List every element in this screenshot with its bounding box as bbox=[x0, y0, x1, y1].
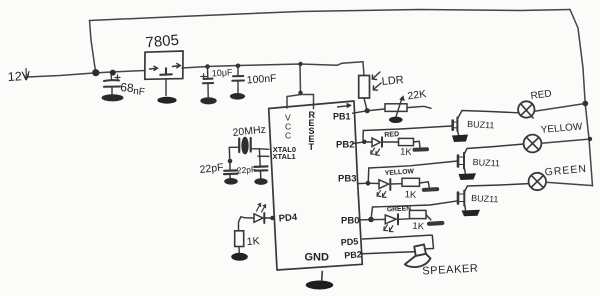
svg-text:RED: RED bbox=[384, 131, 399, 139]
svg-text:PB3: PB3 bbox=[338, 174, 356, 185]
svg-text:PB1: PB1 bbox=[333, 112, 351, 122]
svg-text:PD4: PD4 bbox=[278, 212, 298, 225]
svg-text:nF: nF bbox=[133, 86, 146, 98]
svg-text:1K: 1K bbox=[400, 147, 413, 159]
svg-text:C: C bbox=[285, 131, 291, 141]
svg-text:GREEN: GREEN bbox=[387, 205, 412, 213]
svg-text:GND: GND bbox=[305, 252, 330, 264]
svg-text:10μF: 10μF bbox=[211, 67, 233, 78]
svg-text:BUZ11: BUZ11 bbox=[471, 193, 499, 204]
svg-text:BUZ11: BUZ11 bbox=[472, 157, 500, 168]
svg-text:LDR: LDR bbox=[381, 74, 404, 88]
svg-text:XTAL1: XTAL1 bbox=[273, 152, 296, 161]
svg-text:1K: 1K bbox=[412, 221, 425, 233]
svg-text:PD5: PD5 bbox=[340, 236, 358, 247]
svg-text:7805: 7805 bbox=[145, 32, 180, 52]
svg-text:T: T bbox=[309, 142, 315, 152]
svg-text:100nF: 100nF bbox=[246, 72, 277, 86]
svg-text:22pF: 22pF bbox=[199, 162, 224, 176]
svg-text:PB2: PB2 bbox=[336, 140, 354, 151]
svg-text:1K: 1K bbox=[404, 189, 417, 201]
svg-text:22pF: 22pF bbox=[236, 164, 256, 175]
svg-text:PB0: PB0 bbox=[341, 216, 359, 227]
svg-text:PB2: PB2 bbox=[344, 249, 362, 260]
svg-text:1K: 1K bbox=[246, 235, 260, 248]
svg-text:BUZ11: BUZ11 bbox=[467, 119, 495, 130]
